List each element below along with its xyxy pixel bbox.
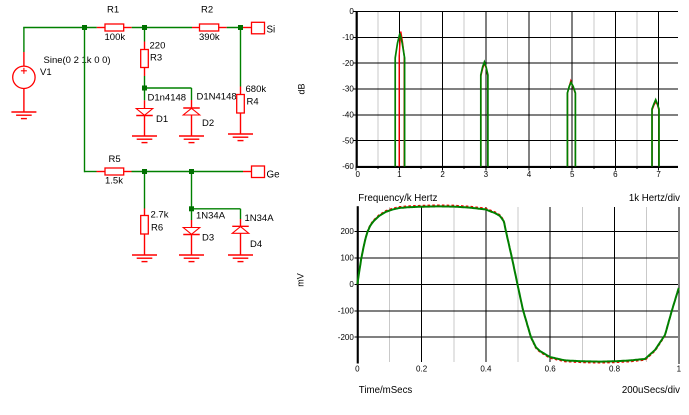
svg-text:Ge: Ge <box>267 169 281 180</box>
wire R6 to ground <box>144 234 146 255</box>
ground below R4 <box>228 134 253 141</box>
svg-text:D2: D2 <box>202 118 214 129</box>
svg-text:1k Hertz/div: 1k Hertz/div <box>629 193 680 204</box>
wire node B down to R3 <box>144 30 146 50</box>
svg-text:D1: D1 <box>156 114 168 125</box>
svg-text:7: 7 <box>656 170 661 179</box>
svg-text:1: 1 <box>677 365 682 374</box>
svg-text:R5: R5 <box>109 154 121 165</box>
wire bottom rail to Ge terminal <box>132 171 244 173</box>
svg-text:R1: R1 <box>107 5 119 16</box>
svg-text:1N34A: 1N34A <box>196 211 226 222</box>
svg-text:Frequency/k Hertz: Frequency/k Hertz <box>358 193 437 204</box>
bottom chart green trace waveform <box>357 206 679 361</box>
node C junction <box>238 25 243 30</box>
svg-text:680k: 680k <box>246 84 267 95</box>
wire node F down to node G <box>191 174 193 209</box>
bottom chart minor grid <box>389 207 646 362</box>
node D junction <box>142 86 147 91</box>
bottom chart y axis <box>357 206 359 363</box>
bottom chart y labels <box>338 227 355 342</box>
node B junction <box>142 25 147 30</box>
svg-text:2.7k: 2.7k <box>151 210 169 221</box>
top chart x labels <box>355 170 661 179</box>
top chart minor grid <box>378 12 637 167</box>
svg-text:2: 2 <box>440 170 445 179</box>
svg-text:1: 1 <box>397 170 402 179</box>
top chart y labels <box>342 7 354 171</box>
svg-text:5: 5 <box>570 170 575 179</box>
svg-text:D3: D3 <box>202 233 214 244</box>
node A junction <box>82 25 87 30</box>
output terminal Ge <box>243 166 280 180</box>
svg-text:3: 3 <box>484 170 489 179</box>
svg-text:0: 0 <box>349 280 354 289</box>
bottom chart x labels <box>355 365 682 374</box>
svg-text:100: 100 <box>340 254 354 263</box>
wire R2 to Si node <box>227 27 243 29</box>
diode D2 <box>183 92 236 130</box>
svg-text:R6: R6 <box>151 223 163 234</box>
diode D3 <box>183 211 225 244</box>
resistor R1 <box>97 5 132 44</box>
node E junction <box>142 169 147 174</box>
top chart y axis title dB <box>297 83 307 94</box>
svg-text:220: 220 <box>150 41 166 52</box>
svg-text:0.6: 0.6 <box>545 365 557 374</box>
bottom chart major grid <box>355 207 679 364</box>
svg-text:0: 0 <box>355 365 360 374</box>
svg-text:-60: -60 <box>342 162 354 171</box>
resistor R6 <box>141 210 169 235</box>
diode D1 <box>136 93 186 126</box>
voltage source V1 <box>13 55 111 89</box>
top chart axes <box>356 11 678 168</box>
wire V1 bottom <box>23 89 25 113</box>
svg-text:390k: 390k <box>199 32 220 43</box>
svg-text:0.4: 0.4 <box>480 365 492 374</box>
wire D2 to ground <box>191 115 193 136</box>
svg-text:mV: mV <box>296 273 306 287</box>
ground below D1 <box>132 136 157 143</box>
resistor R4 <box>237 84 267 113</box>
bottom chart x axis title <box>359 385 413 396</box>
svg-text:200: 200 <box>340 227 354 236</box>
wire node D to D2 <box>147 88 192 108</box>
wire R4 to ground <box>240 113 242 134</box>
bottom chart red trace waveform <box>357 205 679 363</box>
wire D3 to ground <box>191 235 193 256</box>
svg-text:Si: Si <box>267 24 276 35</box>
svg-text:0.8: 0.8 <box>609 365 621 374</box>
svg-text:1.5k: 1.5k <box>105 176 123 187</box>
svg-text:-20: -20 <box>342 59 354 68</box>
svg-text:R3: R3 <box>150 53 162 64</box>
top chart ticks <box>356 167 658 171</box>
wire node G to D4 <box>194 209 241 227</box>
ground below D3 <box>179 255 204 262</box>
wire node C down to R4 <box>240 30 242 95</box>
top chart scale label <box>629 193 680 204</box>
node F junction <box>189 169 194 174</box>
svg-text:-50: -50 <box>342 136 354 145</box>
svg-text:-30: -30 <box>342 85 354 94</box>
ground below D4 <box>228 255 253 262</box>
svg-text:0.2: 0.2 <box>416 365 428 374</box>
output terminal Si <box>243 22 275 35</box>
bottom chart scale label <box>622 385 680 396</box>
svg-text:0: 0 <box>355 170 360 179</box>
svg-text:R4: R4 <box>247 97 259 108</box>
wire V1 top to top rail <box>23 28 25 67</box>
wire D1 to ground <box>144 116 146 137</box>
svg-text:6: 6 <box>613 170 618 179</box>
svg-text:0: 0 <box>349 7 354 16</box>
wire node D down to D1 <box>144 91 146 109</box>
node G junction <box>189 206 194 211</box>
svg-text:-100: -100 <box>338 306 355 315</box>
svg-text:-10: -10 <box>342 33 354 42</box>
top chart green trace spectrum <box>395 33 659 166</box>
svg-text:D1N4148: D1N4148 <box>197 92 237 103</box>
ground below R6 <box>132 255 157 262</box>
svg-text:-200: -200 <box>338 333 355 342</box>
wire R3 to node D <box>144 76 146 86</box>
wire node G to D3 <box>191 211 193 228</box>
wire node E down to R6 <box>144 174 146 216</box>
top chart x axis title <box>358 193 437 204</box>
top chart major grid <box>354 12 678 167</box>
top chart red trace spectrum <box>399 32 659 167</box>
svg-text:1N34A: 1N34A <box>245 213 275 224</box>
svg-text:4: 4 <box>527 170 532 179</box>
svg-text:V1: V1 <box>40 67 52 78</box>
svg-text:100k: 100k <box>105 32 126 43</box>
bottom chart y axis title mV <box>296 273 306 287</box>
wire top rail V1 to R1 <box>23 27 97 29</box>
ground below V1 <box>11 112 36 119</box>
ground below D2 <box>179 136 204 143</box>
resistor R2 <box>192 5 227 44</box>
svg-text:200uSecs/div: 200uSecs/div <box>622 385 680 396</box>
diode D4 <box>232 213 274 250</box>
wire R1 to R2 <box>132 27 192 29</box>
resistor R5 <box>97 154 132 187</box>
svg-text:Time/mSecs: Time/mSecs <box>359 385 413 396</box>
svg-text:dB: dB <box>297 83 307 94</box>
svg-text:Sine(0 2 1k 0 0): Sine(0 2 1k 0 0) <box>44 55 111 66</box>
wire node A down to bottom rail <box>85 28 97 173</box>
resistor R3 <box>141 41 166 77</box>
svg-text:D4: D4 <box>250 239 262 250</box>
svg-text:D1n4148: D1n4148 <box>148 93 187 104</box>
svg-text:R2: R2 <box>201 5 213 16</box>
wire D4 to ground <box>240 233 242 255</box>
svg-text:-40: -40 <box>342 110 354 119</box>
